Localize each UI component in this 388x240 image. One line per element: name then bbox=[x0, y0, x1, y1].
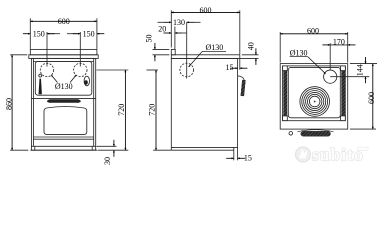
svg-text:150: 150 bbox=[83, 30, 95, 39]
svg-text:170: 170 bbox=[333, 38, 345, 47]
plan view: burner ring 5 bbox=[308, 94, 322, 108]
svg-text:130: 130 bbox=[173, 18, 185, 27]
svg-text:30: 30 bbox=[103, 157, 112, 165]
front view: left lever handle bbox=[39, 79, 42, 95]
plan view: burner ring 1 bbox=[300, 87, 330, 117]
side view: door handle grip hatch lines bbox=[242, 80, 244, 96]
plan view: burner ring 4 bbox=[306, 92, 324, 110]
dim 150 left (front view) bbox=[23, 30, 60, 67]
side view: flue circle (dashed) bbox=[180, 63, 194, 77]
dim 720 (front view, right) bbox=[97, 70, 129, 150]
dim 600 top (plan view) bbox=[280, 26, 348, 62]
dim 720 (side view, left) bbox=[147, 70, 172, 150]
front view: floor line bbox=[30, 149, 97, 151]
svg-text:600: 600 bbox=[58, 17, 70, 26]
svg-text:150: 150 bbox=[33, 30, 45, 39]
plan view: knob top view bbox=[289, 132, 293, 136]
dim 15 bottom (side view) bbox=[226, 147, 252, 162]
front view: oven handle bar bbox=[47, 99, 80, 103]
plan view: outer rect bbox=[280, 64, 348, 130]
svg-text:20: 20 bbox=[158, 24, 166, 33]
dim 40 (side view, right) bbox=[240, 42, 259, 65]
side view: floor line bbox=[171, 149, 234, 151]
svg-text:144: 144 bbox=[356, 64, 365, 76]
svg-text:720: 720 bbox=[117, 104, 126, 116]
plan view: frame inner rect bbox=[283, 66, 346, 121]
plan view: corner square top-right bbox=[341, 66, 346, 71]
dim 130 (side view) bbox=[158, 18, 201, 27]
svg-text:50: 50 bbox=[144, 35, 153, 43]
front view: divider line under panel bbox=[31, 97, 96, 99]
svg-text:15: 15 bbox=[244, 153, 252, 162]
side view: leader arrow to flue circle bbox=[189, 51, 203, 67]
dim 144 (plan view, right) bbox=[350, 57, 377, 83]
front view: flue circle left (dashed) bbox=[40, 63, 53, 76]
front view: flue circle right (dashed) bbox=[74, 63, 87, 76]
front view: body outline bbox=[31, 58, 95, 150]
svg-text:40: 40 bbox=[246, 42, 255, 50]
svg-text:Ø130: Ø130 bbox=[290, 49, 308, 58]
plan view: leader arrow to flue bbox=[308, 57, 326, 74]
plan view: flue hole circle bbox=[324, 70, 337, 83]
plan view: burner ring 2 bbox=[302, 89, 328, 115]
plan view: corner square bottom-right bbox=[341, 116, 346, 121]
svg-text:600: 600 bbox=[200, 6, 212, 15]
side view: flue center line vertical bbox=[186, 22, 188, 78]
svg-text:600: 600 bbox=[307, 26, 319, 35]
watermark subito: dash over final o bbox=[358, 147, 369, 150]
front view: burner panel bbox=[35, 62, 92, 96]
plan view: handle bracket arc bbox=[298, 130, 334, 132]
front view: left wall inner line bbox=[32, 58, 34, 146]
plan view: corner square top-left bbox=[283, 66, 288, 71]
plan view: left hatched band bbox=[283, 67, 287, 120]
front view: left lever ring bbox=[39, 74, 42, 77]
front view: counter band bbox=[29, 55, 98, 59]
svg-text:Ø130: Ø130 bbox=[206, 43, 224, 52]
plan view: burner center dot bbox=[314, 101, 316, 103]
front view: leader arrow to right circle bbox=[70, 75, 76, 83]
front view: top frame line bbox=[33, 61, 93, 63]
side view: back upstand bbox=[171, 49, 175, 54]
front view: body bottom line bbox=[31, 145, 96, 147]
front view: plinth left line bbox=[34, 146, 36, 150]
svg-text:600: 600 bbox=[367, 92, 376, 104]
front view: right knob bbox=[84, 76, 89, 86]
side view: door handle grip (hatched) bbox=[242, 80, 244, 96]
dim 150 right (front view) bbox=[67, 30, 104, 67]
dim 30 bottom (front view) bbox=[97, 140, 117, 165]
dim 860 left (front view) bbox=[5, 55, 29, 150]
side view: door handle bracket bbox=[238, 76, 245, 81]
dim 600 (plan view, right) bbox=[350, 64, 376, 130]
front view: backsplash band bbox=[30, 49, 97, 54]
plan view: inner panel bbox=[288, 67, 340, 117]
side view: counter slab bbox=[171, 55, 240, 59]
plan view: burner ring 6 bbox=[309, 96, 320, 107]
svg-text:860: 860 bbox=[5, 98, 14, 110]
plan view: corner square bottom-left bbox=[283, 116, 288, 121]
plan view: right hatched band bbox=[341, 67, 345, 120]
front view: leader arrow to left circle bbox=[51, 75, 57, 83]
svg-text:15: 15 bbox=[226, 63, 234, 72]
dim 50 (side view, left) bbox=[144, 35, 169, 62]
dim 20 (side view) bbox=[158, 24, 186, 49]
side view: bottom edge line bbox=[171, 147, 234, 149]
plan view: burner ring 3 bbox=[304, 91, 326, 113]
dim 600 top (front view) bbox=[30, 17, 97, 49]
svg-text:720: 720 bbox=[147, 104, 156, 116]
watermark subito: circle icon bbox=[295, 145, 368, 165]
front view: plinth right line bbox=[91, 146, 93, 150]
front view: right knob crescent bbox=[84, 80, 87, 84]
plan view: flue circle horizontal centerline bbox=[330, 76, 369, 78]
front view: right wall inner line bbox=[93, 58, 95, 146]
dim 600 top (side view) bbox=[171, 6, 240, 54]
plan view: handle grip hatched bar bbox=[301, 131, 331, 136]
side view: body outline bbox=[171, 58, 237, 150]
front view: door bottom line 1 bbox=[33, 136, 94, 138]
front view: door bottom line 2 bbox=[33, 138, 94, 140]
dim 170 (plan view) bbox=[322, 38, 355, 71]
svg-text:Ø130: Ø130 bbox=[55, 82, 73, 91]
svg-text:subito: subito bbox=[312, 145, 364, 165]
dim 15 top (side view) bbox=[226, 59, 248, 72]
front view: oven door window outer bbox=[44, 107, 87, 135]
